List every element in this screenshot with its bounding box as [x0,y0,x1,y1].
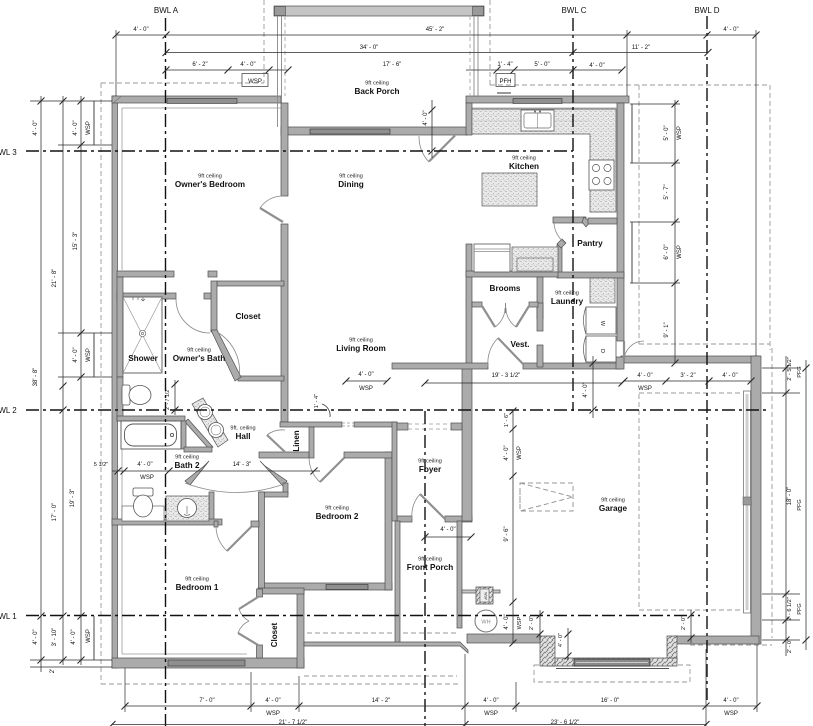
door dining arc [419,136,429,162]
svg-text:W: W [599,321,605,327]
svg-text:WSP: WSP [86,348,92,362]
wall hall portal left diagonal [185,461,209,485]
svg-text:9ft ceiling: 9ft ceiling [198,174,222,180]
WSP bracket left bottom [93,616,95,660]
WSP bracket left mid [93,333,95,377]
svg-text:4' - 0": 4' - 0" [504,614,510,629]
svg-text:21' - 7 1/2": 21' - 7 1/2" [279,720,308,726]
window owner's bedroom north window [167,99,237,104]
svg-text:4' - 0": 4' - 0" [440,527,455,533]
wall foyer north opening stub left [397,423,408,430]
dimension line top row3 right [466,67,626,74]
owner's vanity sink 1 [198,405,213,420]
BWL 2 horizontal dash-dot [26,409,770,411]
svg-text:9ft. ceiling: 9ft. ceiling [230,426,255,432]
foyer cased opening dashes [408,424,451,429]
svg-text:1' - 4": 1' - 4" [497,62,512,68]
WSP bracket right lower [631,222,633,283]
ext bot 706 [705,649,707,726]
svg-text:9ft ceiling: 9ft ceiling [185,577,209,583]
dryer [584,336,617,362]
svg-text:4' - 0": 4' - 0" [33,120,39,135]
living room south opening dashes [342,423,354,426]
wall garage north exterior [621,356,759,363]
laundry cabinet hatch [590,278,615,303]
ext bot 125 [124,668,126,712]
WSP box top [242,74,268,87]
svg-text:WH: WH [481,620,490,626]
wall hall portal right vert [283,483,288,494]
door closet bifold lower arc [238,621,249,633]
wall owner's bedroom north exterior [112,96,281,103]
svg-text:2' - 0": 2' - 0" [787,639,793,653]
svg-text:WSP: WSP [677,126,683,140]
brooms door center post [505,303,507,313]
ext bot 299 [298,676,300,712]
wall foyer east wall [462,368,472,521]
bath2 toilet vanity shelf [122,506,164,521]
svg-text:4' - 0": 4' - 0" [358,372,373,378]
wall owner's bedroom south wall right stub [208,271,217,277]
ext left y377 [58,376,112,378]
svg-text:1' - 4": 1' - 4" [314,394,320,408]
svg-text:16' - 0": 16' - 0" [601,698,620,704]
house south inner face [122,653,247,655]
wall living room south wall left [280,422,342,427]
svg-text:Linen: Linen [292,430,301,451]
wall bath2 north wall (tub back) [117,416,185,421]
svg-text:9ft ceiling: 9ft ceiling [325,506,349,512]
overhang dashed top-right horizontal [490,84,770,86]
svg-text:WSP: WSP [677,245,683,259]
overhang dashed bottom-left horizontal [101,683,460,685]
svg-text:4' - 0": 4' - 0" [137,462,152,468]
svg-text:9ft ceiling: 9ft ceiling [418,557,442,563]
owner's bedroom north inner face [122,107,281,109]
svg-text:BWL 3: BWL 3 [0,148,17,157]
svg-text:Closet: Closet [270,622,279,647]
svg-text:Bedroom 1: Bedroom 1 [176,583,219,592]
wall owner's closet south wall [238,376,284,381]
wall kitchen east exterior [617,103,624,341]
back porch west edge inner [281,16,283,127]
svg-text:Shower: Shower [128,354,158,363]
BWL 3 horizontal dash-dot [26,150,573,152]
wall owner's bath north wall stub [204,293,216,299]
svg-text:Dining: Dining [338,180,363,189]
svg-text:Back Porch: Back Porch [354,87,399,96]
bath2 vanity hatch [166,496,209,521]
owner's vanity sink 2 [209,423,224,438]
wall vest south wall east [523,363,622,369]
svg-text:Vest.: Vest. [510,340,529,349]
svg-text:WSP: WSP [359,386,373,392]
dimension line top row3 left [163,67,292,74]
svg-text:11' - 2": 11' - 2" [632,45,650,51]
wall garage south step right (masonry) [667,636,677,660]
svg-text:Pantry: Pantry [577,239,603,248]
ext top kitchen east corner [626,30,628,96]
window dining north window [310,129,390,134]
svg-text:Brooms: Brooms [490,284,521,293]
wall bath2 south wall [112,519,222,525]
svg-text:2': 2' [50,669,56,673]
wall kitchen west wall lower (brooms west) [466,244,472,367]
svg-text:Closet: Closet [235,312,260,321]
wall bedroom2 west wall [259,492,265,589]
wall laundry south wall jog [616,357,624,369]
svg-text:Living Room: Living Room [336,344,386,353]
ext right 283 [630,282,680,284]
svg-text:14' - 3": 14' - 3" [233,462,252,468]
wall vest south wall west [392,363,488,369]
wall front porch north wall left [397,516,412,522]
svg-text:7' - 0": 7' - 0" [199,698,214,704]
svg-text:WSP: WSP [484,592,488,600]
svg-text:9ft ceiling: 9ft ceiling [349,338,373,344]
overhang dashed porch front [304,675,457,677]
wall closet west stub lower [257,645,263,658]
svg-text:9ft ceiling: 9ft ceiling [512,156,536,162]
door vest arc [488,338,498,366]
ext left y333 [58,332,112,334]
garage attic stair dashed rect [520,483,573,511]
svg-text:17' - 0": 17' - 0" [52,503,58,522]
wall bath2/triangle horizontal wall [184,447,212,452]
wall front porch west wall [395,521,400,643]
wall closet east wall (bedroom1) [297,590,304,668]
dimension line vest bottom dim 19-3.5 [422,380,626,387]
ext left bottom2 [30,666,112,668]
svg-text:Owner's Bath: Owner's Bath [173,354,225,363]
dimension line bottom row1 [122,703,761,710]
svg-text:21' - 8": 21' - 8" [52,269,58,288]
overhang dashed porch right [489,0,491,85]
svg-text:PFG: PFG [797,366,803,378]
dimension line garage sw dim a [537,610,544,640]
svg-text:PFH: PFH [500,79,512,85]
svg-text:17' - 6": 17' - 6" [383,62,402,68]
svg-text:9ft ceiling: 9ft ceiling [418,459,442,465]
ext right garage 393 [762,392,800,394]
door owners closet arc [217,332,240,378]
bath2 sink [178,499,197,518]
garage door sill line [556,668,669,670]
overhang dashed garage roof line v [638,85,640,344]
door garage entry arc [624,341,644,361]
window bedroom1 south window [168,660,245,666]
wall garage east exterior [751,356,761,644]
ext right 163 [630,162,680,164]
dimension line right garage outer chain [803,360,810,650]
wall garage south step left (masonry) [540,636,555,666]
door pantry arc [554,222,565,243]
svg-text:Bedroom 2: Bedroom 2 [316,512,359,521]
svg-text:4' - 0": 4' - 0" [558,633,564,647]
svg-text:WSP: WSP [517,446,523,460]
ext right 104 [630,103,680,105]
svg-text:BWL A: BWL A [154,6,179,15]
door bedroom1 arc [216,527,227,551]
svg-text:PFG: PFG [797,603,803,615]
svg-text:6' - 2": 6' - 2" [192,62,207,68]
overhang dashed porch front2 [299,632,457,634]
door dining leaf [429,136,455,162]
svg-text:4' - 0": 4' - 0" [71,629,77,644]
svg-text:23' - 6 1/2": 23' - 6 1/2" [551,720,580,726]
wall bedroom2 south exterior [259,583,392,590]
overhang dashed garage roof line h [639,343,770,345]
BWL C vertical dash-dot [572,18,574,411]
svg-text:4' - 0": 4' - 0" [504,445,510,460]
svg-text:4' - 0": 4' - 0" [265,698,280,704]
BWL D vertical dash-dot [706,16,708,700]
svg-text:4' - 0": 4' - 0" [589,63,604,69]
dimension line hall dim 14-3 [112,468,320,475]
svg-text:4' - 0": 4' - 0" [722,373,737,379]
svg-text:5' - 7": 5' - 7" [664,184,670,199]
door owners bedroom arc [260,196,283,208]
svg-text:6' - 0": 6' - 0" [664,244,670,259]
dimension line left chain inner [78,96,85,665]
svg-text:WSP: WSP [86,629,92,643]
svg-text:45' - 2": 45' - 2" [426,27,445,33]
wall kitchen north exterior [466,96,629,103]
garage east panel door [743,391,751,613]
dimension line bath vanity dim [172,380,179,415]
wall bedroom2 NW step wall [259,492,288,497]
WSP bracket right upper [631,104,633,163]
kitchen stove [589,160,614,190]
ext right garage 640 [762,639,800,641]
overhang dashed top-left horizontal [101,82,264,84]
kitchen counter L hatch [472,109,616,212]
back porch west screen dashed [284,16,286,96]
house west inner face lower [121,421,123,654]
wall pantry north wall right [588,218,617,224]
wall garage south-right exterior [675,636,759,644]
wall foyer west wall [392,422,397,521]
svg-text:9ft ceiling: 9ft ceiling [187,348,211,354]
wall house west exterior [112,96,118,668]
overhang dashed porch left [263,0,265,83]
svg-text:5 1/2": 5 1/2" [94,462,108,468]
counter by fridge hatch [512,247,558,272]
overhang dashed garage right bottom [690,644,772,646]
door closet bifold lower leaf [238,633,258,645]
garage interior dashed clearance rect [639,393,745,610]
water heater circle [475,610,497,632]
washer [584,307,617,334]
svg-text:4' - 0": 4' - 0" [583,382,589,397]
wall closet west stub upper [257,589,263,597]
wall front porch north wall right [445,516,472,522]
svg-text:4' - 0": 4' - 0" [240,62,255,68]
wall front porch east wall [457,521,462,628]
svg-text:9ft ceiling: 9ft ceiling [555,291,579,297]
ext bot 465 [464,654,466,726]
svg-text:3' - 10": 3' - 10" [52,628,58,647]
ext bot 251 [250,672,252,712]
svg-text:4' - 0": 4' - 0" [483,698,498,704]
svg-text:WSP: WSP [248,79,262,85]
BWL 1 horizontal dash-dot [26,615,700,617]
door closet bifold upper arc [239,609,249,621]
wall brooms door left stub [472,302,482,307]
dimension line garage se dim [688,610,695,643]
dimension line left chain outer [38,96,45,672]
svg-text:WSP: WSP [484,711,498,717]
wall bedroom2 east wall [385,452,392,590]
svg-text:4' - 0": 4' - 0" [73,120,79,135]
dimension line garage sw dim b [565,628,572,660]
svg-text:9ft ceiling: 9ft ceiling [339,174,363,180]
door bedroom2 leaf [320,458,344,482]
door brooms left leaf [482,306,495,327]
refrigerator [474,244,510,272]
svg-text:9ft ceiling: 9ft ceiling [175,455,199,461]
ext right garage 620 [762,619,800,621]
wall pantry north wall left [553,217,586,223]
svg-text:2' - 0": 2' - 0" [681,616,687,630]
dimension line front porch dim [422,534,475,541]
back porch west edge [277,16,279,127]
WSP bracket left top [93,101,95,145]
svg-text:D: D [599,349,605,353]
back porch east edge [477,16,479,96]
wall bedroom2 north wall left [259,452,309,458]
wall alcove west wall (vanity side) [209,492,214,524]
dimension line right kitchen chain [672,100,679,367]
dimension line bottom row2 [109,721,710,726]
door vest leaf [498,338,523,364]
door owners bath arc [176,299,210,333]
wall pantry west wall [557,245,562,273]
ext left bottom [30,659,112,661]
svg-text:2' - 5 1/2": 2' - 5 1/2" [787,357,793,381]
bathtub [121,421,181,449]
dimension line porch-dining dim [429,100,436,158]
dimension line right garage chain [783,356,790,656]
garage overhead door inner line [576,662,648,664]
ext top house west corner [115,30,117,96]
PFH box top [496,74,515,87]
ext right garage 594 [762,593,800,595]
wall pantry north wall jog [582,217,590,227]
door brooms right arc [506,308,516,327]
door closet bifold upper leaf [239,597,258,609]
wall owner's bath south wall stub [117,377,123,421]
wall owner's bath diagonal vanity wall [185,419,213,449]
wall bedroom1 north wall right stub [251,521,259,527]
wall closet north wall [258,588,304,594]
ext bot 757 [756,645,758,712]
ext left top [30,100,112,102]
dimension line garage north dim row [621,378,755,385]
svg-text:14' - 2": 14' - 2" [372,698,391,704]
svg-text:Bath 2: Bath 2 [174,461,199,470]
svg-text:Garage: Garage [599,504,628,513]
ext right garage top [762,367,800,369]
svg-text:BWL C: BWL C [561,6,586,15]
window bedroom2 south window [326,585,368,590]
wall brooms/laundry divider [537,277,543,319]
wall kitchen west wall upper [466,103,472,135]
door linen leaf [267,435,285,452]
wall kitchen counter south wall [466,271,558,277]
svg-text:Owner's Bedroom: Owner's Bedroom [175,180,245,189]
wall WH closet top line [462,590,500,593]
door bedroom1 leaf [227,527,251,551]
wall garage south front (masonry) [548,658,677,666]
house west inner face [121,108,123,270]
svg-text:5' - 0": 5' - 0" [664,125,670,140]
svg-text:9' - 1": 9' - 1" [664,322,670,337]
svg-text:WSP: WSP [517,616,523,629]
svg-text:19' - 3 1/2": 19' - 3 1/2" [492,373,521,379]
svg-text:BWL 1: BWL 1 [0,612,17,621]
overhang dashed garage entry box [534,665,690,682]
dimension line laundry-garage dim [590,356,597,418]
door linen arc [267,430,285,435]
wall shower west wall strip [117,277,123,377]
wall pantry west jamb diagonal [557,239,566,248]
svg-text:WSP: WSP [140,475,154,481]
svg-text:15' - 3": 15' - 3" [73,232,79,251]
wall brooms door right stub [529,302,538,307]
wall laundry west wall stub [537,345,543,367]
wall living room south wall right [354,422,397,427]
svg-text:5' - 0": 5' - 0" [534,62,549,68]
garage overhead door [574,659,650,666]
wall owner's bedroom south wall left [117,271,174,277]
wall front porch south slab edge [304,642,468,653]
wall bath2 east wall upper [181,421,186,449]
svg-text:18' - 0": 18' - 0" [787,487,793,506]
kitchen sink [521,110,554,131]
ext left y145 [58,144,112,146]
svg-text:2' - 6 1/2": 2' - 6 1/2" [787,597,793,621]
svg-text:38' - 8": 38' - 8" [33,368,39,387]
wall owner's bath north wall [117,293,176,299]
svg-text:WSP: WSP [638,386,652,392]
door owners bedroom leaf [260,208,283,222]
svg-text:4' - 0": 4' - 0" [723,698,738,704]
svg-text:9' - 6": 9' - 6" [504,526,510,541]
door front entry arc [412,494,420,519]
wall living/dining west wall (bedroom east) [281,103,288,196]
svg-text:19' - 3": 19' - 3" [70,489,76,508]
dimension line top row2 34ft [163,49,712,56]
hall portal arch arc [185,483,287,493]
svg-text:4' - 0": 4' - 0" [73,347,79,362]
door garage entry leaf [623,341,625,361]
wall bedroom2 north wall right [344,452,392,458]
svg-text:2' - 7 1/2": 2' - 7 1/2" [165,388,171,410]
svg-text:9ft ceiling: 9ft ceiling [601,498,625,504]
ext bot 516 [515,682,517,712]
svg-text:3' - 2": 3' - 2" [680,373,695,379]
wall foyer north opening stub right [451,423,462,430]
back porch east screen dashed [469,16,471,96]
overhang dashed right vertical [769,85,771,350]
dimension line foyer right dims [510,408,517,647]
shower [123,297,162,373]
wall garage/WH south exterior [467,634,540,643]
svg-text:Laundry: Laundry [551,297,584,306]
wall hall portal right diagonal [260,461,287,486]
wall linen east wall [309,427,314,458]
